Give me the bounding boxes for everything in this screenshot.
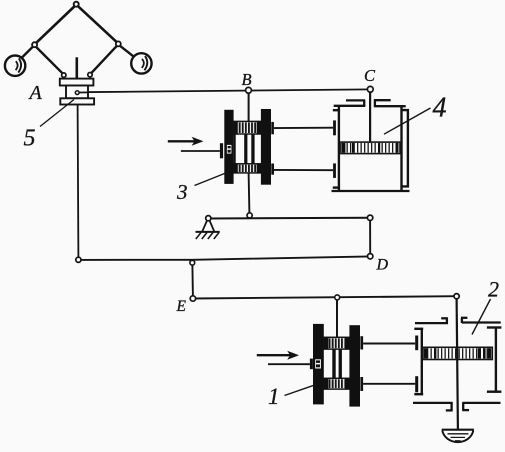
gearbox 1 top output cap xyxy=(360,336,363,349)
wire: bottom link gearbox 3 to frame 4 xyxy=(274,169,333,171)
gearbox 3 top gear rack xyxy=(234,121,261,134)
svg-text:B: B xyxy=(242,70,252,89)
wire: link from collar A to node B to node C xyxy=(79,89,370,92)
gearbox 3 input shaft flange xyxy=(220,143,223,158)
svg-text:2: 2 xyxy=(488,277,499,302)
frame 2 bottom cover right segment with gland xyxy=(462,403,500,410)
svg-text:5: 5 xyxy=(24,126,36,152)
right node above frame 2 xyxy=(454,294,459,299)
wire: rod from joint down into gearbox 1 xyxy=(336,300,338,338)
gearbox 3 input shaft xyxy=(181,150,220,152)
wire: vertical link lever to node D xyxy=(369,220,371,253)
frame 4 bottom cover xyxy=(332,190,410,192)
gearbox 3 input arrow xyxy=(168,137,204,146)
wire: link stub from collar pin to block edge xyxy=(79,91,88,93)
svg-text:1: 1 xyxy=(268,384,280,409)
leader line for label 4 xyxy=(384,108,431,134)
governor left joint xyxy=(32,42,37,47)
gearbox 1 right wheel bar xyxy=(349,325,360,406)
gearbox 1 bottom gear rack xyxy=(324,378,350,389)
leader line for label 2 xyxy=(472,299,491,335)
lever right joint circle xyxy=(367,215,372,220)
wire: vertical link down to node E xyxy=(191,265,194,296)
governor left flyball xyxy=(5,55,25,75)
leader line for label 5 xyxy=(40,100,74,127)
governor right joint xyxy=(116,41,121,46)
gearbox 3 bearing notch xyxy=(227,145,232,154)
gearbox 1 bottom output cap xyxy=(360,377,363,391)
node B xyxy=(246,87,252,93)
wire: vertical rod from gearbox 3 down to lever joint xyxy=(248,173,251,213)
governor link right joint to collar xyxy=(91,46,118,74)
collar A middle block xyxy=(66,86,88,99)
governor right flyball xyxy=(131,53,151,73)
gearbox 1 top gear rack xyxy=(324,337,350,349)
top link end cap at frame 2 xyxy=(415,336,418,351)
node D xyxy=(368,254,373,259)
frame 4 top cover left segment with gland xyxy=(334,100,366,106)
wire: rod from node C down to rack of frame 4 xyxy=(369,92,371,142)
wire: link from node E to right node xyxy=(193,296,457,298)
wire: top link gearbox 1 to frame 2 xyxy=(363,343,415,345)
svg-text:4: 4 xyxy=(433,92,447,123)
governor right collar pivot xyxy=(88,73,92,77)
svg-text:3: 3 xyxy=(176,180,188,204)
gearbox 1 left wheel bar xyxy=(313,324,324,405)
leader line for label 3 xyxy=(195,173,228,186)
gearbox 1 middle shaft strips xyxy=(332,349,335,378)
gearbox 1 input shaft flange xyxy=(310,359,313,370)
svg-text:D: D xyxy=(376,256,389,273)
governor left collar pivot xyxy=(62,73,66,77)
frame 4 left wall xyxy=(333,105,339,191)
svg-text:C: C xyxy=(364,66,376,85)
gearbox 3 top output cap xyxy=(271,122,274,134)
frame 2 bottom cover left segment with gland xyxy=(413,403,453,411)
frame 2 top cover right segment with gland xyxy=(461,318,501,323)
gearbox 1 bearing notch xyxy=(315,359,321,368)
wire: vertical rod from node B into gearbox 3 xyxy=(248,93,250,122)
svg-text:A: A xyxy=(28,82,43,104)
gearbox 1 input arrow xyxy=(257,351,299,360)
gearbox 3 middle left strip xyxy=(234,134,236,164)
wire: long link from node D to left node xyxy=(78,256,370,260)
gearbox 3 left wheel bar xyxy=(224,110,233,184)
gearbox 3 bottom output cap xyxy=(271,164,274,175)
gearbox 3 bottom gear rack xyxy=(234,164,261,173)
joint above gearbox 1 xyxy=(335,295,340,300)
governor link left joint to collar xyxy=(36,47,64,75)
frame 4 top cover right segment with gland xyxy=(374,100,406,106)
frame 2 sliding rack xyxy=(423,347,492,359)
governor upper arm right xyxy=(78,6,118,43)
top link end cap at frame 4 xyxy=(333,120,336,135)
frame 2 right wall with flanges xyxy=(487,327,502,393)
lever from fixed pivot to right joint xyxy=(208,217,370,220)
wire: bottom link gearbox 1 to frame 2 xyxy=(363,383,415,385)
collar A top flange xyxy=(60,79,94,86)
governor arm to left ball xyxy=(17,47,33,63)
gearbox 3 right wheel bar xyxy=(261,109,271,185)
gearbox 3 middle shaft strips xyxy=(244,134,247,164)
frame 2 left wall with flanges xyxy=(414,328,423,395)
wire: top link gearbox 3 to frame 4 xyxy=(274,127,333,129)
bottom link end cap at frame 4 xyxy=(333,163,336,178)
wire: rod from right node through frame 2 to weight xyxy=(457,299,458,429)
governor spindle above collar xyxy=(76,57,79,79)
frame 2 top cover left segment with gland xyxy=(415,318,448,323)
frame 4 sliding rack xyxy=(341,142,401,154)
node C xyxy=(367,86,373,92)
hanging joint below long link xyxy=(190,260,195,265)
collar A bottom flange xyxy=(60,98,94,104)
node E xyxy=(190,296,195,301)
collar A pin circle xyxy=(75,91,79,95)
governor apex joint xyxy=(74,2,79,7)
bottom link end cap at frame 2 xyxy=(415,376,418,392)
governor upper arm left xyxy=(35,6,75,44)
leader line for label 1 xyxy=(285,384,318,395)
joint circle on lever under gearbox 3 xyxy=(247,213,252,218)
weight bowl at rod bottom xyxy=(442,430,474,442)
gearbox 1 input shaft xyxy=(268,363,310,365)
svg-text:E: E xyxy=(176,298,187,315)
fixed pivot joint circle xyxy=(206,216,211,221)
governor arm to right ball xyxy=(120,46,138,60)
left node circle on vertical rod xyxy=(76,257,81,262)
wire: vertical rod from collar down to left node xyxy=(77,105,80,258)
fixed pivot support xyxy=(196,221,220,239)
frame 4 right wall with outer bracket xyxy=(401,105,408,191)
